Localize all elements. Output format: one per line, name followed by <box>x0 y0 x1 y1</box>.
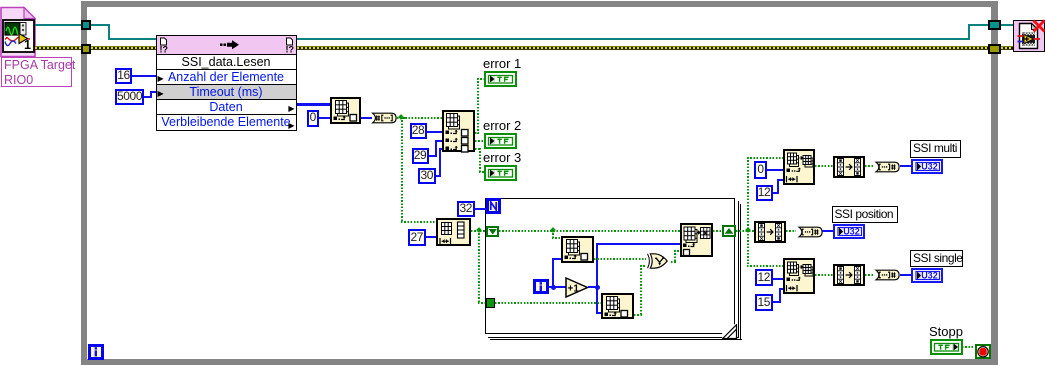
junction before shift register <box>476 227 482 233</box>
while loop iteration terminal i <box>88 344 104 360</box>
blue wire up to replace index input <box>596 243 598 288</box>
invoke node SSI_data.Lesen <box>156 35 297 131</box>
array subset node SSI single <box>783 258 815 294</box>
constant 5000 <box>115 89 144 106</box>
svg-text:1: 1 <box>24 38 31 52</box>
index array 2 out to OR <box>634 314 642 316</box>
junction dot on i wire <box>551 285 556 290</box>
while loop left border <box>81 1 87 365</box>
reverse multi out <box>865 165 875 167</box>
for loop frame <box>485 198 735 334</box>
wire 12 to subset multi <box>773 192 779 194</box>
array subset node SSI multi <box>783 149 815 185</box>
error tunnel right border <box>988 44 1001 54</box>
error wire right of node <box>297 46 989 50</box>
wire row1 to error1 TF <box>475 132 479 134</box>
subset multi out <box>815 165 833 167</box>
open FPGA VI icon <box>2 19 35 53</box>
array subset out <box>471 230 480 232</box>
green wire out of for loop <box>736 230 754 232</box>
error wire inside loop left <box>91 46 156 50</box>
red X on close icon <box>1031 18 1045 34</box>
label error 3 <box>483 150 521 165</box>
for loop dog-ear corner <box>722 324 738 340</box>
green wire to junction <box>397 117 405 119</box>
wire into left shift register <box>480 230 486 232</box>
label SSI single <box>910 250 963 268</box>
index array node 2 in loop <box>601 293 634 320</box>
close FPGA VI reference icon <box>1013 20 1045 52</box>
index array node B (3 indices) <box>442 110 475 153</box>
reverse 1D array node SSI multi <box>833 156 865 178</box>
replace array subset node <box>680 223 714 257</box>
vertical distribution wire <box>747 157 749 266</box>
index array node A <box>330 97 362 124</box>
svg-text:U32: U32 <box>921 161 938 171</box>
array subset node (wordlength) <box>436 218 471 246</box>
green wire down to loop tunnel <box>478 230 480 303</box>
wire 15 to subset single <box>773 301 781 303</box>
wire 28 <box>427 131 443 133</box>
wire to U32 position <box>822 230 833 232</box>
OR out to replace element input <box>671 261 676 263</box>
svg-text:!?: !? <box>159 44 168 54</box>
open FPGA VI reference pink page <box>0 6 38 58</box>
blue wire up to index array 1 <box>552 258 554 288</box>
green wire SR to replace node <box>499 230 680 232</box>
constant 0 (index) <box>307 110 320 127</box>
junction right of loop <box>745 227 751 233</box>
branch to SSI multi row <box>747 157 783 159</box>
wire 30 <box>436 175 441 177</box>
constant 15 (single length) <box>755 294 773 311</box>
wire 5000 to Timeout input <box>144 96 152 98</box>
wire 29 <box>429 155 437 157</box>
for loop frame shadow bottom <box>488 337 740 338</box>
svg-text:U32: U32 <box>921 271 938 281</box>
teal wire to close icon <box>1001 24 1014 26</box>
constant 12 (multi length) <box>756 185 773 202</box>
constant 16 <box>115 68 132 85</box>
index array node 1 in loop <box>561 236 594 263</box>
replace out to right shift register <box>713 230 722 232</box>
wire Stopp to condition terminal <box>962 346 975 348</box>
wire row2 to error2 TF <box>475 140 485 142</box>
wire junction to reverse position <box>749 230 754 232</box>
index array 1 out to OR <box>594 258 646 260</box>
while loop top border <box>81 1 998 7</box>
reverse position out <box>786 230 796 232</box>
FPGA Target RIO0 label <box>1 57 72 87</box>
branch to SSI single row <box>747 265 783 267</box>
teal tunnel on left loop border <box>81 20 91 30</box>
TF indicator error 2 <box>484 133 517 149</box>
wire i to +1 <box>549 286 566 288</box>
wire index A out <box>361 117 372 119</box>
teal wire right of node <box>297 38 970 40</box>
+1 increment node <box>565 277 589 298</box>
constant 30 <box>418 168 436 185</box>
wire 12 to subset single <box>773 278 784 280</box>
reverse 1D array node SSI position <box>754 221 786 243</box>
U32 indicator SSI position <box>833 224 865 239</box>
constant 32 <box>457 201 476 218</box>
teal wire inside loop left <box>91 24 110 26</box>
wire 32 to N <box>475 208 486 210</box>
label Stopp <box>929 324 963 339</box>
boolean array to number SSI single <box>873 269 901 281</box>
reverse 1D array node SSI single <box>833 264 865 286</box>
constant 27 <box>408 229 426 246</box>
OR gate <box>645 253 671 270</box>
for loop frame shadow right <box>738 201 739 337</box>
svg-text:!?: !? <box>285 44 294 54</box>
U32 indicator SSI single <box>911 268 943 283</box>
thick array wire from Daten <box>297 103 331 106</box>
subset single out <box>815 274 833 276</box>
green drop to index array 1 <box>552 230 554 239</box>
boolean array to number SSI position <box>796 226 824 238</box>
for loop iteration terminal i <box>533 279 549 295</box>
green wire tunnel to index array 2 <box>495 302 601 304</box>
wire 0 to subset multi <box>767 169 783 171</box>
wire +1 out <box>588 286 598 288</box>
TF indicator error 3 <box>484 165 517 181</box>
wire 27 to array subset <box>426 236 436 238</box>
green wire down to array subset <box>401 117 403 222</box>
TF control Stopp <box>930 339 963 355</box>
constant 12 (single offset) <box>755 269 773 286</box>
label error 2 <box>483 118 521 133</box>
boolean array to number SSI multi <box>873 161 901 173</box>
wire 16 to Anzahl input <box>132 75 156 77</box>
teal tunnel right border <box>988 20 1001 30</box>
left shift register <box>486 226 500 237</box>
number to boolean array node <box>370 112 398 124</box>
junction on SR wire <box>550 227 556 233</box>
green wire junction to index array B <box>402 117 442 119</box>
wire row3 to error3 TF <box>475 148 481 150</box>
error wire to close icon <box>1001 46 1014 50</box>
junction after conversion <box>398 114 404 120</box>
blue wire down to index array 2 <box>596 287 598 314</box>
for loop count terminal N <box>486 198 501 214</box>
wire to U32 single <box>900 274 912 276</box>
label error 1 <box>483 56 521 71</box>
teal reference wire, FPGA icon to loop <box>35 24 81 26</box>
TF indicator error 1 <box>484 71 517 87</box>
error tunnel on left loop border <box>81 44 91 54</box>
wire 0 to index array A <box>319 117 331 119</box>
label SSI position <box>832 206 899 224</box>
svg-text:+1: +1 <box>567 284 579 295</box>
loop condition stop terminal <box>975 344 991 360</box>
loop input tunnel (solid green) <box>486 298 496 308</box>
label SSI multi <box>910 140 961 158</box>
right shift register <box>722 225 736 237</box>
constant 28 <box>410 123 427 140</box>
constant 29 <box>412 148 429 165</box>
while loop bottom border <box>81 359 998 365</box>
error wire, FPGA icon to loop <box>35 46 81 50</box>
U32 indicator SSI multi <box>911 159 943 174</box>
svg-text:U32: U32 <box>843 226 860 236</box>
constant 0 (multi offset) <box>754 161 767 179</box>
reverse single out <box>865 274 874 276</box>
wire to U32 multi <box>900 165 911 167</box>
while loop right border <box>991 1 999 365</box>
junction dot after +1 <box>595 285 600 290</box>
